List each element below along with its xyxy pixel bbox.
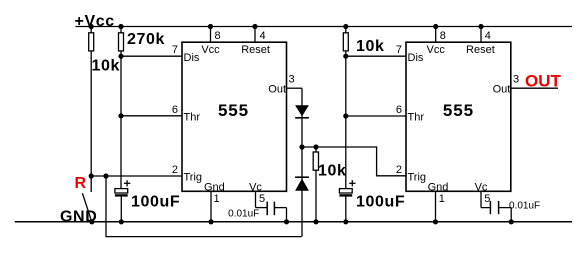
wire GND rail (15, 221, 572, 223)
node dot GND-switch (89, 219, 94, 224)
svg-text:10k: 10k (318, 163, 347, 180)
svg-text:Out: Out (493, 83, 511, 95)
capacitor C1 100uF lead bottom (120, 196, 122, 222)
node dot GND-R3 (313, 219, 318, 224)
node dot Vcc-pin4 U2 (478, 24, 483, 29)
svg-text:OUT: OUT (525, 72, 562, 91)
switch S1 stub (90, 176, 92, 192)
node dot GND-C4 (509, 219, 514, 224)
svg-text:2: 2 (172, 164, 178, 176)
wire pin8 stub U2 (435, 27, 437, 43)
U1 pin labels (172, 30, 519, 205)
diode D1 triangle (295, 105, 309, 116)
svg-text:Dis: Dis (184, 52, 200, 64)
resistor R3 10k mid : leads and body (315, 147, 317, 152)
capacitor C1 plus sign (124, 182, 130, 184)
wire Out2 (511, 87, 558, 89)
svg-text:Thr: Thr (184, 111, 201, 123)
svg-text:Thr: Thr (408, 111, 425, 123)
svg-text:3: 3 (513, 74, 519, 86)
svg-text:Out: Out (268, 83, 286, 95)
node dot Vcc-pin8 U2 (433, 24, 438, 29)
svg-text:R: R (75, 175, 87, 192)
capacitor C1 100uF top plate (115, 189, 128, 193)
node dot R2-Thr1 (118, 113, 123, 118)
wire Trig1 (91, 175, 182, 177)
capacitor C3 100uF bottom plate (339, 194, 352, 196)
node dot R4-Thr2 (343, 113, 348, 118)
wire Thr1 (121, 115, 182, 117)
svg-text:555: 555 (443, 101, 474, 120)
svg-text:Vcc: Vcc (427, 44, 446, 56)
node dot GND-C2 (284, 219, 289, 224)
svg-text:Trig: Trig (408, 172, 427, 184)
wire pin1 Gnd stub U1 (210, 191, 212, 222)
svg-text:4: 4 (485, 30, 491, 42)
svg-text:2: 2 (396, 164, 402, 176)
wire pin5 Vc stub U1 (255, 191, 257, 207)
svg-text:Reset: Reset (241, 44, 270, 56)
wire pin4 stub U2 (480, 27, 482, 43)
svg-text:Gnd: Gnd (428, 181, 449, 193)
node dot Trig1-return (103, 173, 108, 178)
resistor R1 10k left : leads (90, 27, 92, 33)
node dot R1-Trig1 (89, 173, 94, 178)
svg-text:Dis: Dis (408, 52, 424, 64)
svg-text:100uF: 100uF (356, 193, 405, 210)
node dot Vcc-R4 (343, 24, 348, 29)
svg-text:1: 1 (439, 193, 445, 205)
svg-text:1: 1 (214, 193, 220, 205)
svg-text:6: 6 (172, 104, 178, 116)
switch S1 blade (82, 193, 91, 222)
node dot GND-C3 (343, 219, 348, 224)
svg-text:0.01uF: 0.01uF (228, 209, 259, 220)
svg-text:270k: 270k (127, 31, 165, 48)
capacitor C4 0.01uF plates (489, 201, 491, 214)
capacitor C3 100uF top plate (339, 189, 352, 193)
op-amp U2 555 box (406, 42, 511, 191)
svg-text:555: 555 (218, 101, 249, 120)
svg-text:Reset: Reset (466, 44, 495, 56)
svg-text:10k: 10k (356, 38, 385, 55)
wire Dis2 (346, 55, 406, 57)
svg-text:Trig: Trig (184, 172, 203, 184)
svg-text:3: 3 (289, 74, 295, 86)
svg-text:10k: 10k (92, 58, 121, 75)
node dot R3 top (313, 144, 318, 149)
wire pin8 stub U1 (210, 27, 212, 43)
svg-text:+Vcc: +Vcc (75, 13, 115, 30)
resistor R2 270k : leads and body (120, 27, 122, 33)
node dot diode junction (299, 144, 304, 149)
svg-text:5: 5 (484, 193, 490, 205)
svg-text:8: 8 (215, 30, 221, 42)
wire Out1 (287, 87, 303, 89)
wire junction to Trig2 (302, 147, 406, 176)
svg-text:6: 6 (396, 104, 402, 116)
wire pin1 Gnd stub U2 (435, 191, 437, 222)
capacitor C4 0.01uF leads (481, 207, 490, 209)
wire lower return (106, 176, 302, 237)
capacitor C1 100uF bottom plate (115, 194, 128, 196)
capacitor C3 plus sign (349, 182, 355, 184)
svg-text:8: 8 (440, 30, 446, 42)
svg-text:Gnd: Gnd (204, 181, 225, 193)
wire diode chain vertical (301, 88, 303, 236)
node dot Vcc-R2 (118, 24, 123, 29)
svg-text:Vc: Vc (249, 181, 262, 193)
wire Dis1 (121, 55, 182, 57)
svg-text:5: 5 (259, 193, 265, 205)
node dot Vcc-pin8 U1 (208, 24, 213, 29)
node dot Vcc-pin4 U1 (252, 24, 257, 29)
node dot R4-Dis2 (343, 54, 348, 59)
svg-text:7: 7 (172, 44, 178, 56)
wire Vcc rail (76, 26, 573, 28)
capacitor C3 100uF lead bottom (345, 196, 347, 222)
node dot GND-pin1 U2 (433, 219, 438, 224)
svg-text:GND: GND (60, 208, 97, 225)
wire Thr2 (346, 115, 406, 117)
node dot GND-pin1 U1 (208, 219, 213, 224)
svg-text:Vcc: Vcc (201, 44, 220, 56)
svg-text:7: 7 (396, 44, 402, 56)
capacitor C2 0.01uF plates (266, 202, 268, 216)
svg-text:Vc: Vc (475, 181, 488, 193)
diode D1 cathode bar (295, 117, 309, 119)
capacitor C2 0.01uF leads (256, 207, 267, 209)
wire pin5 Vc stub U2 (480, 191, 482, 207)
resistor R4 10k right : leads and body (345, 27, 347, 33)
svg-text:4: 4 (260, 30, 266, 42)
node dot GND-C1 (119, 219, 124, 224)
diode D2 triangle (295, 179, 309, 191)
svg-text:0.01uF: 0.01uF (509, 201, 540, 212)
node dot Vcc-R1 (89, 24, 94, 29)
svg-text:100uF: 100uF (131, 193, 180, 210)
op-amp U1 555 box (182, 42, 287, 191)
node dot R2-Dis1 (118, 54, 123, 59)
diode D2 cathode bar (295, 176, 309, 178)
wire pin4 stub U1 (254, 27, 256, 43)
